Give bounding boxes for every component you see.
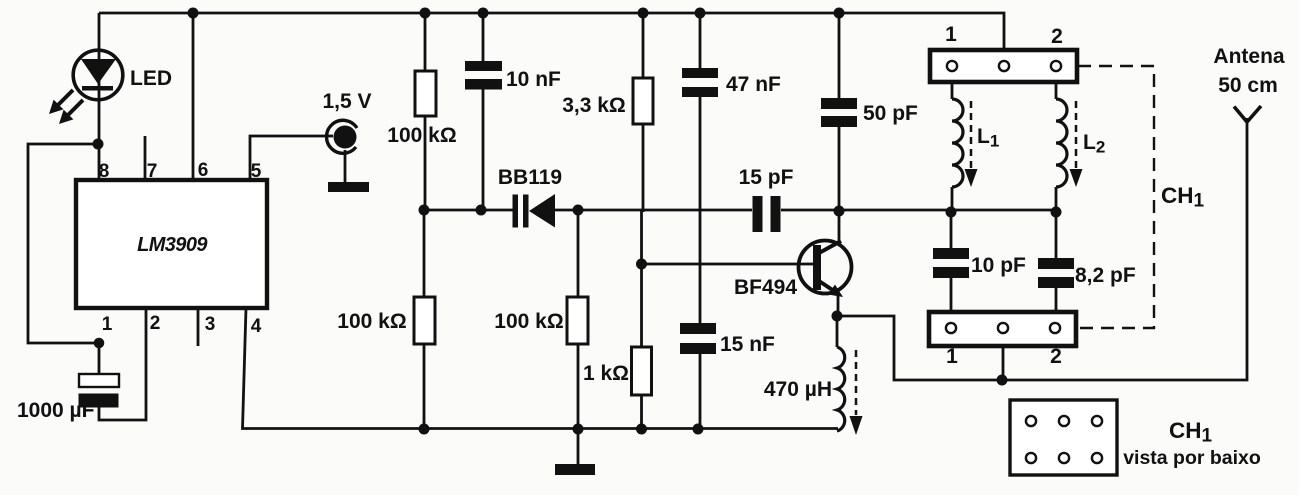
svg-text:1 kΩ: 1 kΩ bbox=[583, 362, 629, 385]
svg-text:3: 3 bbox=[205, 314, 216, 335]
svg-text:5: 5 bbox=[251, 161, 262, 182]
svg-text:Antena: Antena bbox=[1213, 45, 1284, 68]
svg-text:1000 µF: 1000 µF bbox=[17, 399, 95, 422]
svg-text:15 pF: 15 pF bbox=[739, 166, 794, 189]
svg-text:47 nF: 47 nF bbox=[726, 73, 781, 96]
svg-text:470 µH: 470 µH bbox=[764, 378, 832, 401]
svg-text:100 kΩ: 100 kΩ bbox=[494, 310, 563, 333]
svg-text:100 kΩ: 100 kΩ bbox=[387, 124, 456, 147]
svg-text:3,3 kΩ: 3,3 kΩ bbox=[562, 94, 626, 117]
svg-text:15 nF: 15 nF bbox=[720, 333, 775, 356]
svg-text:LM3909: LM3909 bbox=[137, 234, 208, 256]
svg-text:vista por baixo: vista por baixo bbox=[1123, 447, 1261, 469]
svg-text:50 cm: 50 cm bbox=[1218, 74, 1278, 97]
svg-text:2: 2 bbox=[1050, 345, 1062, 368]
svg-text:1,5 V: 1,5 V bbox=[322, 90, 371, 113]
svg-text:10 nF: 10 nF bbox=[506, 68, 561, 91]
svg-text:7: 7 bbox=[147, 161, 158, 182]
svg-text:BB119: BB119 bbox=[498, 166, 562, 189]
svg-text:BF494: BF494 bbox=[734, 276, 797, 299]
svg-text:2: 2 bbox=[150, 313, 161, 334]
svg-text:8: 8 bbox=[99, 161, 110, 182]
svg-text:1: 1 bbox=[946, 345, 958, 368]
svg-text:1: 1 bbox=[102, 314, 113, 335]
svg-text:8,2 pF: 8,2 pF bbox=[1075, 264, 1136, 287]
svg-text:100 kΩ: 100 kΩ bbox=[337, 310, 406, 333]
svg-text:6: 6 bbox=[198, 160, 209, 181]
svg-text:10 pF: 10 pF bbox=[971, 254, 1026, 277]
svg-text:50 pF: 50 pF bbox=[863, 102, 918, 125]
svg-text:LED: LED bbox=[130, 67, 172, 90]
svg-text:2: 2 bbox=[1051, 25, 1063, 48]
svg-text:4: 4 bbox=[251, 316, 262, 337]
svg-text:1: 1 bbox=[945, 23, 957, 46]
